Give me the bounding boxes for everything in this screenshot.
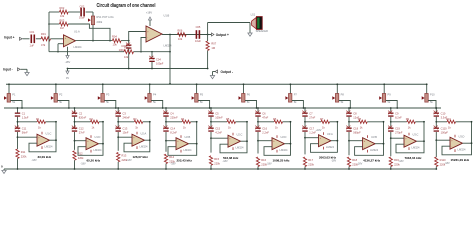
capacitor C12 27nF — [72, 128, 77, 129]
wire output stage 10 — [463, 142, 472, 144]
op-amp U2:D LM324 stage 6 — [272, 138, 285, 150]
resistor R15 220k — [209, 156, 212, 166]
capacitor C7 27nF — [302, 113, 307, 114]
svg-text:P5: P5 — [200, 93, 204, 97]
svg-text:LM324: LM324 — [280, 148, 288, 152]
svg-text:R06: R06 — [178, 28, 183, 32]
capacitor C13 15nF — [116, 128, 121, 129]
wire output stage 5 — [241, 140, 248, 142]
wire U1:B output to bus — [169, 35, 171, 52]
capacitor C3 240nF — [116, 113, 121, 114]
ground output - — [213, 71, 216, 73]
svg-text:27nF: 27nF — [309, 115, 315, 119]
capacitor C01 1uF — [31, 35, 33, 44]
svg-text:47k: 47k — [41, 43, 46, 47]
power pin stubs stage 8 — [367, 135, 369, 138]
op-amp U3:B LM324 stage 8 — [363, 138, 376, 150]
wire pot P10 to bus — [428, 101, 436, 109]
wire — [390, 117, 392, 128]
svg-text:4136,27 kHz: 4136,27 kHz — [363, 158, 381, 162]
wire stage 4 column — [165, 108, 167, 113]
capacitor C6 47nF — [255, 113, 260, 114]
wire pot P7 to bus — [292, 101, 304, 109]
svg-text:C9: C9 — [395, 111, 399, 115]
op-amp U3:D LM324 stage 10 — [450, 137, 463, 149]
wire output U1:A — [76, 40, 113, 42]
capacitor C9 8,2nF — [388, 113, 393, 114]
svg-text:R2: R2 — [90, 117, 94, 121]
resistor R05 10k — [124, 50, 134, 54]
wire output stage 7 — [331, 140, 337, 142]
wire — [348, 117, 350, 128]
wire — [304, 167, 306, 170]
potentiometer P10 5k — [426, 84, 428, 93]
power pin stubs stage 10 — [454, 135, 456, 138]
wire feedback box stage 7 — [311, 122, 338, 153]
svg-text:C02: C02 — [80, 4, 85, 8]
svg-text:15231,29 kHz: 15231,29 kHz — [451, 158, 470, 162]
svg-text:LM324: LM324 — [370, 148, 378, 152]
svg-text:15nF: 15nF — [123, 131, 129, 135]
wire pot P1 to bus — [11, 101, 23, 109]
wire minus input stage 1 — [18, 136, 38, 138]
wire plus input U1:B — [141, 38, 146, 52]
output + terminal — [211, 33, 214, 36]
svg-text:R3: R3 — [133, 117, 137, 121]
capacitor C16 2,2nF — [255, 128, 260, 129]
svg-text:8,2nF: 8,2nF — [395, 115, 402, 119]
wire — [257, 167, 259, 170]
wire 0V bus — [68, 68, 208, 70]
resistor R2 1k — [75, 121, 91, 123]
wire feedback box stage 9 — [396, 122, 424, 153]
potentiometer P1 5k — [8, 84, 10, 93]
svg-text:LM324: LM324 — [164, 44, 172, 48]
wire — [117, 132, 119, 151]
resistor R14 220k — [164, 154, 167, 164]
wire — [51, 38, 64, 40]
wire — [257, 117, 259, 128]
power pin stubs stage 9 — [408, 133, 410, 136]
capacitor C1 1,5uF — [15, 113, 20, 114]
svg-text:U3:C: U3:C — [413, 132, 419, 136]
capacitor C18 560pF — [346, 128, 351, 129]
wire minus input stage 4 — [166, 140, 176, 142]
svg-text:+18V: +18V — [316, 129, 322, 132]
capacitor C15 4,2nF — [208, 128, 213, 129]
wire — [210, 132, 212, 153]
power pin stubs stage 1 — [41, 132, 43, 135]
wire feedback rail — [48, 12, 50, 52]
svg-text:U2:D: U2:D — [281, 135, 287, 139]
capacitor C02 10uF — [68, 11, 80, 13]
svg-text:P10: P10 — [430, 93, 435, 97]
svg-text:C18: C18 — [353, 127, 358, 131]
svg-text:R5: R5 — [226, 117, 230, 121]
svg-text:R10: R10 — [446, 117, 451, 121]
resistor R9 1k — [391, 121, 407, 123]
op-amp U1:A LM324 — [64, 35, 76, 47]
svg-text:10uF: 10uF — [195, 39, 201, 43]
wire pot P4 to bus — [151, 101, 163, 109]
svg-text:503,38 kHz: 503,38 kHz — [223, 156, 239, 160]
wire speaker — [207, 23, 209, 35]
svg-text:+18V: +18V — [146, 11, 152, 15]
svg-text:Output +: Output + — [216, 33, 229, 37]
wire — [74, 160, 76, 169]
resistor R19 220k — [389, 157, 392, 167]
op-amp U1:C LM324 stage 1 — [37, 134, 50, 146]
resistor R01 47k — [41, 37, 51, 41]
wire — [17, 132, 19, 149]
svg-text:27nF: 27nF — [79, 131, 85, 135]
svg-text:C7: C7 — [309, 111, 313, 115]
wire — [128, 48, 130, 68]
wire — [435, 167, 437, 170]
svg-text:R11: R11 — [21, 150, 26, 154]
svg-text:P6: P6 — [247, 93, 251, 97]
wire — [23, 38, 30, 40]
svg-text:200k: 200k — [97, 20, 103, 24]
op-amp U2:A LM324 stage 3 — [132, 134, 145, 146]
svg-text:R8: R8 — [358, 117, 362, 121]
wire stage 7 column — [304, 108, 306, 113]
wire minus input stage 3 — [118, 136, 132, 138]
svg-text:P2: P2 — [59, 93, 63, 97]
wire stage 10 column — [435, 108, 437, 113]
svg-text:U1:A: U1:A — [74, 30, 80, 34]
svg-text:U2:B: U2:B — [185, 135, 191, 139]
svg-text:R03: R03 — [60, 18, 65, 22]
capacitor C19 270pF — [388, 128, 393, 129]
wire pot P8 to bus — [339, 101, 351, 109]
resistor R07 1M — [207, 35, 209, 42]
wire to minus input U1:B — [129, 32, 146, 41]
svg-text:R01: R01 — [41, 32, 46, 36]
svg-text:-18V: -18V — [31, 159, 37, 162]
svg-text:220k: 220k — [78, 156, 84, 160]
wire — [390, 132, 392, 156]
output - terminal — [215, 70, 218, 73]
wire feedback box stage 2 — [78, 122, 103, 156]
wire — [435, 132, 437, 157]
wire minus input stage 8 — [349, 140, 363, 142]
wire minus input stage 7 — [305, 137, 319, 139]
svg-text:C3: C3 — [123, 111, 127, 115]
wire top bus — [6, 83, 427, 85]
capacitor C14 8,2nF — [163, 128, 168, 129]
wire stage 5 column — [210, 108, 212, 113]
svg-text:R4: R4 — [181, 117, 185, 121]
ground input - — [21, 68, 28, 70]
svg-text:C10: C10 — [441, 111, 446, 115]
wire bottom bus — [4, 168, 437, 170]
svg-text:C1: C1 — [22, 111, 26, 115]
svg-text:8,2nF: 8,2nF — [170, 131, 177, 135]
capacitor C2 820nF — [72, 113, 77, 114]
svg-text:10k: 10k — [60, 14, 65, 18]
svg-text:R02: R02 — [60, 6, 65, 10]
ground 0 bottom left — [3, 169, 5, 170]
resistor R11 220k — [16, 149, 19, 159]
wire minus input U1:A — [58, 43, 64, 45]
op-amp U1:B LM324 — [146, 26, 162, 42]
power 0V flag — [67, 68, 69, 70]
wire — [207, 51, 209, 69]
svg-text:U3:A: U3:A — [327, 132, 333, 136]
capacitor C03 100pF — [128, 41, 130, 45]
svg-text:Input +: Input + — [4, 35, 15, 39]
svg-text:C17: C17 — [309, 127, 314, 131]
svg-text:LM324: LM324 — [74, 45, 82, 49]
wire stage 3 column — [117, 108, 119, 113]
wire — [17, 159, 19, 170]
potentiometer P2 5k — [55, 84, 57, 93]
wire pot P3 to bus — [104, 101, 116, 109]
wire — [117, 117, 119, 128]
svg-text:220nF: 220nF — [170, 115, 178, 119]
wire stage 8 column — [348, 108, 350, 113]
op-amp U2:C LM324 stage 5 — [228, 135, 241, 147]
potentiometer P8 5k — [336, 84, 338, 93]
wire middle bus — [4, 107, 441, 109]
power pin stubs stage 2 — [90, 135, 92, 138]
power pin stubs stage 5 — [232, 133, 234, 136]
wire — [390, 167, 392, 170]
svg-text:LM324: LM324 — [94, 148, 102, 152]
svg-text:-18V: -18V — [65, 60, 71, 64]
resistor R7 1k — [305, 121, 321, 123]
wire output stage 2 — [99, 143, 104, 145]
svg-text:C6: C6 — [262, 111, 266, 115]
resistor R12 220k — [73, 151, 76, 161]
svg-text:P1: P1 — [12, 93, 16, 97]
wire output stage 1 — [50, 139, 57, 141]
svg-text:100nF: 100nF — [215, 115, 223, 119]
svg-text:Output -: Output - — [221, 70, 233, 74]
svg-text:-18V: -18V — [80, 162, 86, 165]
capacitor C4 220nF — [163, 113, 168, 114]
svg-text:C11: C11 — [22, 127, 27, 131]
svg-text:56nF: 56nF — [22, 131, 28, 135]
potentiometer P7 5k — [289, 84, 291, 93]
wire — [165, 164, 167, 169]
wire feedback box stage 6 — [264, 122, 291, 156]
svg-text:C14: C14 — [170, 127, 175, 131]
svg-text:C110: C110 — [441, 127, 448, 131]
wire — [117, 162, 119, 169]
capacitor C17 1,2nF — [302, 128, 307, 129]
resistor R06 10k — [178, 33, 187, 37]
svg-text:R04: R04 — [112, 34, 117, 38]
resistor R8 1k — [349, 121, 359, 123]
wire feedback box stage 5 — [220, 122, 247, 153]
svg-text:0V: 0V — [66, 76, 69, 80]
wire stage 9 column — [390, 108, 392, 113]
svg-text:R9: R9 — [406, 117, 410, 121]
svg-text:C4: C4 — [170, 111, 174, 115]
svg-text:U3:B: U3:B — [371, 135, 377, 139]
wire — [165, 132, 167, 152]
op-amp U3:C LM324 stage 9 — [404, 135, 417, 147]
svg-text:C12: C12 — [79, 127, 84, 131]
op-amp U2:B LM324 stage 4 — [176, 138, 189, 150]
svg-text:10k: 10k — [124, 55, 129, 59]
potentiometer P9 5k — [383, 84, 385, 93]
svg-text:-18V: -18V — [266, 162, 272, 165]
svg-text:-18V: -18V — [398, 160, 404, 163]
svg-text:-18V: -18V — [222, 160, 228, 163]
svg-text:270pF: 270pF — [395, 131, 403, 135]
wire output stage 6 — [285, 143, 291, 145]
svg-text:2003,03 kHz: 2003,03 kHz — [319, 155, 337, 159]
svg-text:R6: R6 — [273, 117, 277, 121]
svg-text:LS1: LS1 — [251, 13, 256, 17]
svg-text:240nF: 240nF — [123, 115, 131, 119]
power -18V U1:A — [67, 47, 69, 56]
wire feedback line — [49, 51, 124, 53]
resistor R1 1k — [18, 121, 38, 123]
wire — [134, 51, 171, 53]
wire stage 1 column — [17, 108, 19, 113]
wire — [257, 132, 259, 154]
svg-text:SPEAKER: SPEAKER — [256, 29, 268, 33]
resistor R17 220k — [303, 157, 306, 167]
wire — [210, 165, 212, 169]
svg-text:C5: C5 — [215, 111, 219, 115]
svg-text:1uF: 1uF — [30, 44, 35, 48]
svg-text:1,5uF: 1,5uF — [22, 115, 29, 119]
resistor R18 220k — [347, 157, 350, 167]
op-amp U3:A LM324 stage 7 — [319, 135, 332, 147]
potentiometer RV1 POT LOG 200k — [91, 16, 94, 25]
svg-text:-18V: -18V — [331, 159, 337, 162]
wire — [86, 11, 93, 13]
svg-text:4,2nF: 4,2nF — [215, 131, 222, 135]
svg-text:R07: R07 — [211, 41, 216, 45]
wire output stage 4 — [189, 143, 197, 145]
wire — [121, 40, 129, 42]
resistor R10 1k — [436, 121, 447, 123]
resistor R4 1k — [166, 121, 182, 123]
wire pot P2 to bus — [57, 101, 69, 109]
svg-text:1M: 1M — [211, 46, 215, 50]
svg-text:C13: C13 — [123, 127, 128, 131]
svg-text:220k: 220k — [394, 163, 400, 167]
svg-text:P9: P9 — [388, 93, 392, 97]
svg-text:C15: C15 — [215, 127, 220, 131]
svg-text:220k: 220k — [21, 155, 27, 159]
wire feedback box stage 10 — [442, 122, 472, 155]
wire output stage 9 — [417, 140, 425, 142]
svg-text:1M: 1M — [60, 26, 64, 30]
wire minus input stage 2 — [75, 140, 87, 142]
capacitor C8 12nF — [346, 113, 351, 114]
svg-text:R05: R05 — [124, 46, 129, 50]
potentiometer P3 5k — [102, 84, 104, 93]
svg-text:P3: P3 — [106, 93, 110, 97]
wire pot P5 to bus — [198, 101, 210, 109]
wire minus input stage 9 — [391, 137, 404, 139]
svg-text:U1:D: U1:D — [95, 135, 101, 139]
svg-text:C05: C05 — [196, 25, 201, 29]
wire output U1:B — [162, 34, 211, 36]
svg-text:U2:A: U2:A — [141, 131, 147, 135]
svg-text:P8: P8 — [341, 93, 345, 97]
svg-text:252,43 kHz: 252,43 kHz — [177, 158, 193, 162]
svg-text:220k: 220k — [308, 163, 314, 167]
resistor R16 220k — [256, 157, 259, 167]
svg-text:LM324: LM324 — [45, 144, 53, 148]
resistor R13 220k — [117, 152, 120, 162]
capacitor C5 100nF — [208, 113, 213, 114]
svg-text:10uF: 10uF — [79, 16, 85, 20]
svg-text:RV1 POT LOG: RV1 POT LOG — [97, 15, 114, 19]
wire feedback box stage 4 — [168, 122, 197, 156]
svg-text:10k: 10k — [178, 37, 183, 41]
ground speaker — [249, 23, 251, 34]
svg-text:220k: 220k — [214, 161, 220, 165]
svg-text:LM324: LM324 — [326, 145, 334, 149]
svg-text:-18V: -18V — [357, 162, 363, 165]
svg-text:820nF: 820nF — [79, 115, 87, 119]
wire minus input stage 5 — [211, 137, 228, 139]
speaker LS1 — [252, 18, 257, 29]
wire — [348, 132, 350, 155]
capacitor C05 10uF — [196, 30, 198, 39]
svg-text:47nF: 47nF — [262, 115, 268, 119]
power pin stubs stage 4 — [180, 135, 182, 138]
svg-text:C8: C8 — [353, 111, 357, 115]
resistor R110 220k — [435, 157, 438, 167]
svg-text:C04: C04 — [156, 57, 161, 61]
svg-text:U2:C: U2:C — [237, 132, 243, 136]
svg-text:100pF: 100pF — [156, 61, 164, 65]
svg-text:U1:C: U1:C — [46, 131, 52, 135]
resistor R3 1k — [118, 121, 134, 123]
svg-text:C16: C16 — [262, 127, 267, 131]
svg-text:R15: R15 — [214, 157, 219, 161]
svg-text:LM324: LM324 — [236, 145, 244, 149]
capacitor C11 56nF — [15, 128, 20, 129]
potentiometer P6 5k — [243, 84, 245, 93]
svg-text:U3:D: U3:D — [459, 134, 465, 138]
wire — [304, 132, 306, 154]
wire stage 6 column — [257, 108, 259, 113]
svg-text:-18V: -18V — [444, 162, 450, 165]
wire — [304, 117, 306, 128]
wire feedback box stage 1 — [29, 122, 56, 152]
wire pot P9 to bus — [386, 101, 398, 109]
wire stage 2 column — [74, 108, 76, 113]
svg-text:LM324: LM324 — [184, 148, 192, 152]
power pin stubs stage 7 — [323, 132, 325, 135]
svg-text:2,2nF: 2,2nF — [262, 131, 269, 135]
svg-text:P7: P7 — [294, 93, 298, 97]
wire — [435, 117, 437, 128]
svg-text:Input -: Input - — [3, 67, 13, 71]
power +18V U1:B — [149, 20, 151, 26]
svg-text:126,07 kHz: 126,07 kHz — [133, 155, 149, 159]
svg-text:C2: C2 — [79, 111, 83, 115]
wire — [68, 24, 110, 41]
svg-text:R13: R13 — [122, 153, 127, 157]
svg-text:C19: C19 — [395, 127, 400, 131]
capacitor C10 3,3nF — [434, 113, 439, 114]
wire pot P6 to bus — [245, 101, 257, 109]
svg-text:65,20 kHz: 65,20 kHz — [87, 158, 101, 162]
wire — [17, 117, 19, 128]
